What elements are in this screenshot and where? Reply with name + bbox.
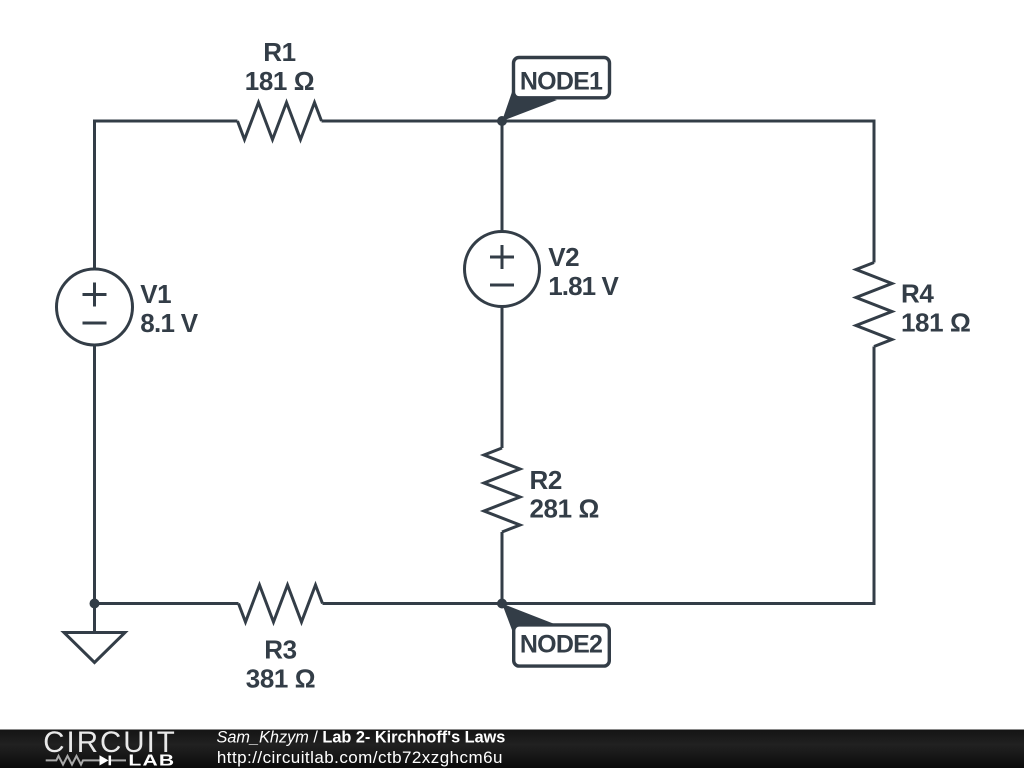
resistor R2 <box>484 448 520 532</box>
NODE2 callout tail <box>502 604 557 631</box>
svg-text:R3: R3 <box>264 634 296 664</box>
resistor R4 <box>856 263 892 347</box>
svg-text:V1: V1 <box>140 279 171 309</box>
V2 plus sign <box>490 245 514 269</box>
logo resistor squiggle <box>46 756 100 765</box>
svg-text:R1: R1 <box>263 37 295 67</box>
svg-text:R4: R4 <box>901 279 934 309</box>
footer bar <box>0 730 1024 768</box>
voltage source V2 <box>465 232 540 307</box>
svg-text:181 Ω: 181 Ω <box>245 66 314 96</box>
svg-text:R2: R2 <box>530 465 562 495</box>
junction node at NODE2 <box>497 599 507 609</box>
resistor R1 <box>238 103 322 140</box>
wire left lower <box>93 345 96 604</box>
resistor R3 <box>239 585 323 622</box>
wire middle branch between V2 and R2 <box>501 307 504 449</box>
svg-text:LAB: LAB <box>128 751 175 768</box>
ground stem <box>93 604 96 633</box>
wire middle branch lower <box>501 532 504 604</box>
junction node at NODE1 <box>497 116 507 126</box>
voltage source V1 <box>57 269 133 345</box>
logo wire after diode <box>111 759 126 761</box>
svg-text:http://circuitlab.com/ctb72xzg: http://circuitlab.com/ctb72xzghcm6u <box>217 748 503 767</box>
svg-text:181 Ω: 181 Ω <box>901 307 970 337</box>
svg-text:NODE2: NODE2 <box>520 631 602 659</box>
junction node at ground <box>90 599 100 609</box>
wire middle branch upper <box>501 121 504 232</box>
svg-text:281 Ω: 281 Ω <box>530 493 599 523</box>
svg-text:1.81 V: 1.81 V <box>548 271 619 301</box>
V2 minus sign <box>490 284 514 287</box>
svg-text:V2: V2 <box>548 242 579 272</box>
logo diode symbol <box>100 755 109 765</box>
NODE1 callout box <box>514 58 610 98</box>
svg-text:NODE1: NODE1 <box>520 68 603 96</box>
wire top-left segment <box>95 121 238 269</box>
NODE2 callout box <box>514 625 610 666</box>
V1 minus sign <box>83 322 107 325</box>
svg-text:Sam_Khzym / Lab 2- Kirchhoff's: Sam_Khzym / Lab 2- Kirchhoff's Laws <box>217 728 506 746</box>
ground symbol <box>64 633 125 663</box>
wire top segment node1 to right <box>322 121 875 263</box>
svg-text:8.1 V: 8.1 V <box>140 308 199 338</box>
logo diode cathode bar <box>109 756 112 766</box>
V1 plus sign <box>83 283 107 307</box>
wire bottom right segment <box>323 347 875 604</box>
wire bottom left segment <box>95 602 239 605</box>
svg-text:381 Ω: 381 Ω <box>246 664 315 694</box>
NODE1 callout tail <box>502 92 557 121</box>
